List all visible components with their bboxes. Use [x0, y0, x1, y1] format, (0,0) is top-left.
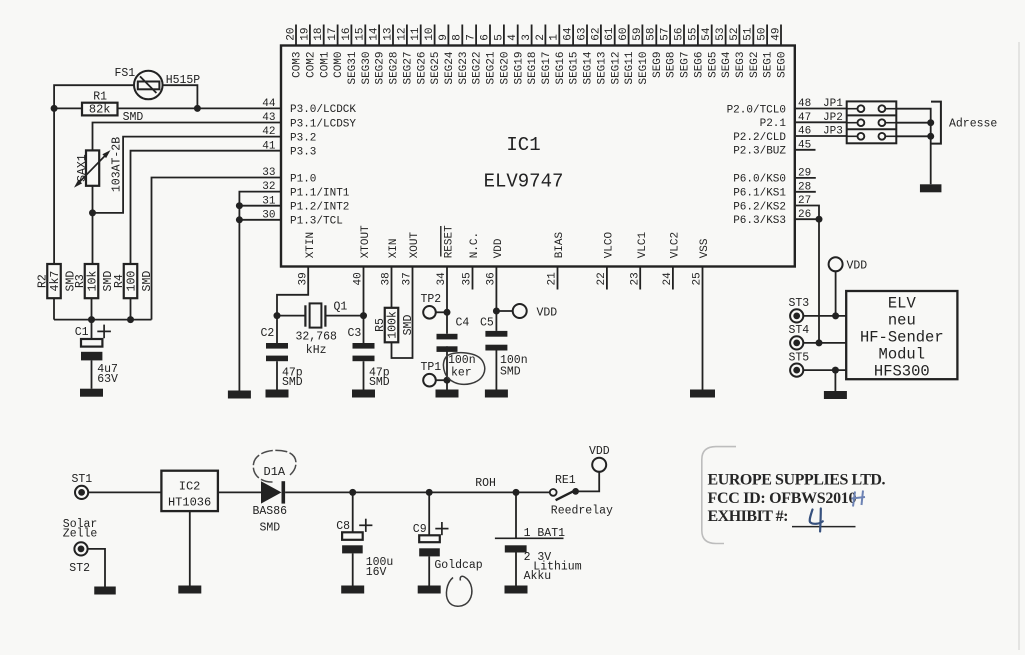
IC1 bottom pin 34 RESET — [436, 225, 455, 286]
resistor R1 82k — [82, 90, 143, 124]
jumper block JP1 JP2 JP3 — [823, 98, 896, 143]
bracket Adresse — [931, 102, 997, 144]
svg-text:R3: R3 — [74, 274, 87, 288]
svg-text:51: 51 — [743, 27, 755, 41]
wire ST1 to IC2 — [88, 491, 161, 493]
svg-text:C1: C1 — [75, 326, 89, 339]
testpoint TP1 — [421, 361, 448, 386]
IC1 right pin 27 P6.2/KS2 — [733, 195, 811, 213]
wire pin46 to JP3 — [795, 135, 847, 137]
IC1 top pin 19 COM2 — [299, 25, 317, 78]
junction R3 bus — [88, 316, 95, 323]
junction left rail / R1 — [51, 105, 58, 112]
svg-text:SEG31: SEG31 — [347, 51, 359, 84]
svg-text:JP1: JP1 — [823, 98, 843, 110]
diode D1 BAS86 — [253, 465, 288, 535]
svg-text:JP2: JP2 — [823, 112, 843, 124]
svg-text:C3: C3 — [348, 327, 362, 340]
svg-text:55: 55 — [687, 27, 699, 40]
svg-text:P2.2/CLD: P2.2/CLD — [733, 132, 786, 144]
svg-text:R1: R1 — [93, 90, 107, 103]
wire RE1 to VDD — [576, 472, 600, 492]
IC1 top pin 8 SEG23 — [452, 25, 470, 85]
svg-text:EXHIBIT #:: EXHIBIT #: — [708, 508, 789, 525]
svg-text:6: 6 — [479, 34, 491, 41]
IC1 left pin 41 P3.3 — [262, 140, 316, 158]
svg-text:ELV9747: ELV9747 — [484, 171, 564, 193]
svg-text:53: 53 — [715, 27, 727, 40]
IC1 top pin 4 SEG19 — [507, 25, 525, 85]
svg-text:32,768: 32,768 — [296, 331, 338, 344]
svg-text:P3.3: P3.3 — [290, 147, 316, 159]
IC1 top pin 20 COM3 — [285, 25, 303, 78]
svg-text:ST3: ST3 — [789, 297, 810, 310]
IC1 bottom pin 37 XOUT — [402, 231, 421, 285]
svg-text:SEG1: SEG1 — [763, 51, 775, 78]
svg-text:C4: C4 — [456, 316, 470, 329]
svg-text:COM3: COM3 — [292, 52, 304, 78]
IC1 left pin 31 P1.2/INT2 — [262, 195, 349, 213]
battery BAT1 3V Lithium — [495, 492, 582, 585]
capacitor C5 100n SMD — [480, 316, 528, 389]
IC1 top pin 58 SEG9 — [646, 25, 664, 78]
wire pin26 down to ST4 — [818, 219, 820, 343]
svg-text:XTIN: XTIN — [305, 232, 317, 258]
IC1 left pin 30 P1.3/TCL — [262, 209, 343, 227]
IC1 top pin 17 COM0 — [327, 25, 345, 78]
svg-text:BIAS: BIAS — [554, 231, 566, 258]
IC1 top pin 12 SEG27 — [396, 25, 414, 85]
wire ST2 to ground — [88, 549, 105, 588]
svg-text:kHz: kHz — [306, 344, 327, 357]
svg-text:ST4: ST4 — [789, 324, 810, 337]
ground below C2 — [266, 390, 289, 398]
junction JP3 rail — [927, 133, 934, 140]
IC1 top pin 54 SEG5 — [701, 25, 719, 78]
wire left rail down to R2 — [53, 108, 55, 264]
IC1 bottom pin 24 VLC2 — [662, 232, 681, 286]
IC1 left pin 44 P3.0/LCDCK — [262, 98, 356, 116]
svg-text:SEG6: SEG6 — [694, 52, 706, 78]
svg-text:Modul: Modul — [879, 346, 926, 364]
IC1 left pin 32 P1.1/INT1 — [262, 181, 350, 199]
IC1 top pin 52 SEG3 — [729, 25, 747, 78]
svg-text:56: 56 — [673, 27, 685, 40]
svg-text:TP2: TP2 — [421, 293, 442, 306]
terminal ST1 — [72, 473, 93, 499]
svg-text:RE1: RE1 — [555, 474, 576, 487]
svg-text:P6.2/KS2: P6.2/KS2 — [733, 201, 786, 213]
svg-text:XOUT: XOUT — [409, 231, 421, 258]
svg-text:Adresse: Adresse — [949, 118, 997, 131]
ground below ST2 — [94, 587, 116, 595]
svg-text:61: 61 — [604, 27, 616, 41]
ground below IC2 — [178, 586, 201, 594]
IC1 top pin 6 SEG21 — [479, 25, 497, 85]
svg-text:19: 19 — [299, 27, 311, 40]
wire pin43 to SAX1 — [93, 123, 282, 151]
svg-text:SEG29: SEG29 — [375, 52, 387, 85]
capacitor C9 Goldcap — [413, 492, 483, 585]
svg-text:P1.2/INT2: P1.2/INT2 — [290, 202, 349, 214]
svg-text:SEG2: SEG2 — [749, 52, 761, 78]
svg-text:SEG17: SEG17 — [541, 52, 553, 85]
svg-text:SEG20: SEG20 — [500, 52, 512, 85]
svg-text:100n: 100n — [448, 354, 476, 367]
svg-text:SEG28: SEG28 — [389, 52, 401, 85]
hand-drawn loop around D1 — [253, 450, 296, 482]
svg-text:1: 1 — [549, 34, 561, 41]
wire VDD pin36 lead — [495, 267, 497, 331]
svg-text:P2.3/BUZ: P2.3/BUZ — [733, 146, 786, 158]
svg-text:SEG30: SEG30 — [361, 52, 373, 85]
svg-text:P2.0/TCL0: P2.0/TCL0 — [727, 104, 786, 116]
wire JP3 to rail — [896, 135, 930, 137]
IC1 left pin 42 P3.2 — [262, 126, 316, 144]
svg-text:52: 52 — [729, 27, 741, 40]
IC1 top pin 59 SEG10 — [632, 25, 650, 85]
svg-text:ST1: ST1 — [72, 473, 93, 486]
svg-text:VDD: VDD — [589, 445, 610, 458]
svg-text:P1.1/INT1: P1.1/INT1 — [290, 187, 350, 199]
svg-text:HT1036: HT1036 — [168, 496, 211, 510]
svg-text:SMD: SMD — [141, 271, 154, 292]
junction XTOUT node — [360, 312, 367, 319]
svg-text:10k: 10k — [87, 271, 100, 292]
sensor SAX1 103AT-2B — [74, 137, 124, 192]
junction VDD ST3 — [832, 312, 839, 319]
junction SAX1/R3/pin42 — [89, 209, 96, 216]
svg-text:COM1: COM1 — [319, 51, 331, 78]
wire pin31 stub — [239, 205, 281, 207]
wire XIN pin38 lead — [391, 267, 393, 308]
svg-text:SEG14: SEG14 — [583, 51, 595, 84]
svg-text:18: 18 — [313, 27, 325, 40]
svg-text:57: 57 — [660, 27, 672, 40]
wire FS1 top loop left — [54, 85, 134, 108]
wire JP2 to rail — [896, 122, 930, 124]
terminal ST5 — [789, 351, 847, 376]
IC1 bottom pin 39 XTIN — [297, 232, 316, 286]
handwritten blue H — [852, 491, 866, 507]
capacitor C3 47p — [348, 316, 390, 390]
svg-text:Q1: Q1 — [334, 300, 348, 313]
svg-text:10: 10 — [424, 27, 436, 40]
exhibit underline — [792, 526, 856, 528]
svg-text:59: 59 — [632, 27, 644, 40]
junction R4 bus — [127, 316, 134, 323]
svg-text:VLC1: VLC1 — [637, 231, 649, 258]
IC1 top pin 16 SEG31 — [341, 25, 359, 85]
IC1 top pin 3 SEG18 — [521, 25, 539, 85]
junction ST4 pin26 rail — [816, 339, 823, 346]
junction C4 TP1 — [444, 377, 451, 384]
svg-text:13: 13 — [382, 27, 394, 40]
svg-text:HFS300: HFS300 — [874, 363, 930, 381]
IC1 top pin 14 SEG29 — [369, 25, 387, 85]
IC1 top pin 9 SEG24 — [438, 25, 456, 85]
svg-text:15: 15 — [355, 27, 367, 40]
svg-text:11: 11 — [410, 27, 422, 41]
svg-text:VDD: VDD — [537, 306, 558, 319]
resistor R2 4k7 — [37, 264, 78, 298]
stub lead pin 45 — [795, 149, 816, 151]
ground below jumper rail — [920, 184, 942, 192]
IC1 top pin 13 SEG28 — [382, 25, 400, 85]
junction FS1 / pin44 — [194, 105, 201, 112]
svg-text:63: 63 — [576, 27, 588, 40]
svg-text:14: 14 — [369, 27, 381, 41]
svg-text:SEG0: SEG0 — [777, 52, 789, 78]
svg-text:SEG21: SEG21 — [486, 51, 498, 84]
wire R3 bottom lead — [91, 298, 93, 319]
wire crystal left lead — [277, 315, 305, 317]
testpoint TP2 — [421, 293, 448, 318]
svg-text:IC1: IC1 — [506, 134, 540, 156]
junction VDD node — [493, 308, 500, 315]
IC1 bottom pin 40 XTOUT — [353, 225, 372, 286]
svg-text:SEG18: SEG18 — [527, 52, 539, 85]
svg-text:60: 60 — [618, 27, 630, 40]
svg-text:SEG22: SEG22 — [472, 52, 484, 85]
svg-text:VLC2: VLC2 — [670, 232, 682, 258]
stub lead pin 21 BIAS — [557, 267, 559, 290]
svg-text:8: 8 — [452, 34, 464, 41]
svg-text:C2: C2 — [261, 327, 275, 340]
IC1 bottom pin 35 N.C. — [462, 232, 481, 286]
wire VSS pin25 lead — [702, 267, 704, 390]
svg-text:50: 50 — [757, 27, 769, 40]
svg-text:R4: R4 — [113, 274, 126, 288]
svg-text:VSS: VSS — [699, 238, 711, 258]
svg-text:SEG7: SEG7 — [680, 52, 692, 78]
IC1 top pin 7 SEG22 — [466, 25, 484, 85]
svg-text:Goldcap: Goldcap — [434, 559, 482, 572]
junction XTIN node — [274, 312, 281, 319]
svg-text:neu: neu — [888, 312, 916, 330]
wire pin33 to bottom bus — [152, 178, 282, 320]
junction pin30 rail — [236, 216, 243, 223]
svg-text:RESET: RESET — [444, 225, 456, 258]
wire pin27 pin26 join — [795, 206, 819, 220]
IC1 top pin 51 SEG2 — [743, 25, 761, 78]
svg-text:P1.0: P1.0 — [290, 173, 316, 185]
IC1 right pin 28 P6.1/KS1 — [733, 181, 811, 199]
svg-text:EUROPE SUPPLIES LTD.: EUROPE SUPPLIES LTD. — [708, 471, 886, 488]
module HF-Sender HFS300 — [846, 291, 957, 381]
wire IC2 to D1 — [218, 491, 261, 493]
wire JP right rail to ground — [896, 109, 930, 185]
junction BAT1 rail — [513, 489, 520, 496]
stub lead pin 23 VLC1 — [639, 267, 641, 290]
capacitor C2 47p — [261, 316, 303, 390]
IC1 top pin 62 SEG13 — [590, 25, 608, 85]
svg-text:R2: R2 — [37, 274, 50, 288]
ground below C5 — [485, 390, 508, 398]
svg-text:2: 2 — [535, 34, 547, 41]
svg-text:P3.2: P3.2 — [290, 132, 316, 144]
svg-text:FCC ID: OFBWS2010: FCC ID: OFBWS2010 — [708, 490, 857, 507]
svg-text:62: 62 — [590, 27, 602, 40]
ground below P1 rail — [228, 391, 251, 399]
IC1 top pin 1 SEG16 — [549, 25, 567, 85]
capacitor C8 100u 16V — [336, 492, 393, 585]
IC1 left pin 43 P3.1/LCDSY — [262, 112, 356, 130]
svg-text:SEG3: SEG3 — [735, 52, 747, 78]
svg-text:SEG15: SEG15 — [569, 52, 581, 85]
terminal ST2 — [69, 542, 90, 574]
svg-text:SEG24: SEG24 — [444, 51, 456, 84]
wire pin30 stub — [239, 219, 281, 221]
svg-text:VDD: VDD — [493, 238, 505, 258]
svg-text:82k: 82k — [89, 103, 111, 117]
svg-text:SEG23: SEG23 — [458, 52, 470, 85]
wire D1 to RE1 main rail — [285, 491, 550, 493]
svg-text:SEG10: SEG10 — [638, 52, 650, 85]
svg-text:TP1: TP1 — [421, 361, 442, 374]
IC1 top pin 10 SEG25 — [424, 25, 442, 85]
svg-text:P6.0/KS0: P6.0/KS0 — [733, 174, 786, 186]
wire R4 bottom lead — [130, 298, 132, 319]
wire pin48 to JP1 — [795, 108, 847, 110]
IC1 top pin 55 SEG6 — [687, 25, 705, 78]
svg-text:COM2: COM2 — [306, 52, 318, 78]
svg-text:SEG25: SEG25 — [430, 52, 442, 85]
resistor R3 10k — [74, 264, 115, 298]
svg-text:63V: 63V — [97, 373, 118, 386]
junction ST5 ground — [832, 367, 839, 374]
svg-text:5: 5 — [493, 34, 505, 41]
svg-text:7: 7 — [466, 34, 478, 41]
svg-text:SEG16: SEG16 — [555, 52, 567, 85]
svg-text:ST5: ST5 — [789, 351, 810, 364]
junction JP2 rail — [927, 119, 934, 126]
wire XTIN pin39 elbow — [277, 267, 308, 316]
svg-text:16: 16 — [341, 27, 353, 40]
junction C8 rail — [349, 489, 356, 496]
IC1 bottom pin 36 VDD — [486, 238, 505, 285]
svg-text:16V: 16V — [366, 566, 387, 579]
IC1 top pin 60 SEG11 — [618, 25, 636, 85]
stub lead pin 35 N.C. — [472, 267, 474, 290]
svg-text:SMD: SMD — [282, 376, 303, 389]
terminal ST4 — [789, 324, 847, 349]
IC1 top pin 2 SEG17 — [535, 25, 553, 85]
wire SAX1 to R3 — [92, 186, 94, 264]
wire pin26 stub — [795, 218, 819, 220]
handwritten blue 4 — [810, 509, 823, 532]
svg-text:Akku: Akku — [524, 570, 552, 583]
svg-text:P3.1/LCDSY: P3.1/LCDSY — [290, 118, 356, 130]
svg-text:100k: 100k — [387, 311, 400, 339]
svg-text:JP3: JP3 — [823, 126, 843, 138]
IC1 top pin 5 SEG20 — [493, 25, 511, 85]
svg-text:Reedrelay: Reedrelay — [551, 504, 613, 517]
wire crystal right lead — [325, 315, 363, 317]
svg-text:P2.1: P2.1 — [760, 118, 787, 130]
IC1 bottom pin 25 VSS — [692, 238, 711, 285]
IC1 bottom pin 22 VLCO — [596, 231, 615, 285]
ground below C8 — [341, 586, 364, 594]
svg-text:D1A: D1A — [264, 465, 286, 479]
resistor R5 100k — [374, 308, 415, 343]
wire FS1 top loop right — [161, 85, 198, 108]
svg-text:XIN: XIN — [388, 238, 400, 258]
stamp label outline — [702, 447, 736, 544]
wire pin42 elbow — [93, 137, 282, 213]
IC1 right pin 47 P2.1 — [760, 112, 812, 130]
hand-drawn loop around 100n ker — [443, 353, 484, 385]
wire ST5 to ground — [834, 370, 836, 391]
wire IC2 to ground — [189, 511, 191, 585]
wire RESET pin34 lead — [446, 267, 448, 334]
svg-text:SMD: SMD — [500, 366, 521, 379]
svg-text:P3.0/LCDCK: P3.0/LCDCK — [290, 104, 356, 116]
svg-text:C9: C9 — [413, 523, 427, 536]
svg-text:Zelle: Zelle — [63, 528, 98, 541]
svg-text:100: 100 — [126, 271, 139, 292]
wire pin32 rail to ground — [239, 192, 281, 391]
label Solar Zelle — [63, 518, 98, 541]
ground below ST5 — [824, 391, 847, 399]
svg-text:49: 49 — [770, 27, 782, 40]
IC1 top pin 63 SEG14 — [576, 25, 594, 85]
wire pin47 to JP2 — [795, 121, 847, 123]
svg-text:P1.3/TCL: P1.3/TCL — [290, 216, 343, 228]
svg-text:ROH: ROH — [475, 477, 496, 490]
svg-text:P6.3/KS3: P6.3/KS3 — [733, 215, 786, 227]
power VDD terminal bottom — [589, 445, 610, 472]
svg-text:SMD: SMD — [260, 522, 281, 535]
svg-text:4: 4 — [507, 34, 519, 41]
IC1 top pin 15 SEG30 — [355, 25, 373, 85]
svg-text:H515P: H515P — [166, 74, 201, 87]
IC1 right pin 48 P2.0/TCL0 — [727, 98, 812, 116]
svg-text:R5: R5 — [374, 318, 387, 332]
svg-text:SEG26: SEG26 — [416, 52, 428, 85]
IC1 top pin 56 SEG7 — [673, 25, 691, 78]
svg-text:17: 17 — [327, 27, 339, 40]
svg-text:4k7: 4k7 — [49, 271, 62, 292]
svg-text:20: 20 — [285, 27, 297, 40]
IC1 bottom pin 21 BIAS — [547, 231, 566, 285]
svg-text:SEG8: SEG8 — [666, 52, 678, 78]
hand-drawn loop below Goldcap — [446, 576, 471, 606]
power VDD terminal right — [829, 257, 868, 316]
svg-text:COM0: COM0 — [333, 52, 345, 78]
IC1 top pin 18 COM1 — [313, 25, 331, 78]
svg-text:N.C.: N.C. — [469, 232, 481, 258]
svg-text:3: 3 — [521, 34, 533, 41]
IC1 right pin 46 P2.2/CLD — [733, 126, 811, 144]
capacitor C1 4u7 63V — [75, 320, 118, 389]
svg-text:XTOUT: XTOUT — [360, 225, 372, 258]
IC1 left pin 33 P1.0 — [262, 167, 316, 185]
scan streak — [1018, 42, 1020, 650]
IC1 right pin 29 P6.0/KS0 — [733, 168, 811, 186]
junction pin26 — [816, 216, 823, 223]
wire R2 bottom lead — [53, 298, 55, 319]
IC1 bottom pin 38 XIN — [381, 238, 400, 285]
svg-text:1 BAT1: 1 BAT1 — [524, 527, 566, 540]
svg-text:SEG12: SEG12 — [610, 52, 622, 85]
svg-text:HF-Sender: HF-Sender — [860, 329, 944, 347]
ground below BAT1 — [505, 586, 528, 594]
IC1 top pin 53 SEG4 — [715, 25, 733, 78]
svg-text:9: 9 — [438, 34, 450, 41]
wire pin44 net — [54, 107, 281, 109]
svg-text:103AT-2B: 103AT-2B — [111, 137, 124, 192]
